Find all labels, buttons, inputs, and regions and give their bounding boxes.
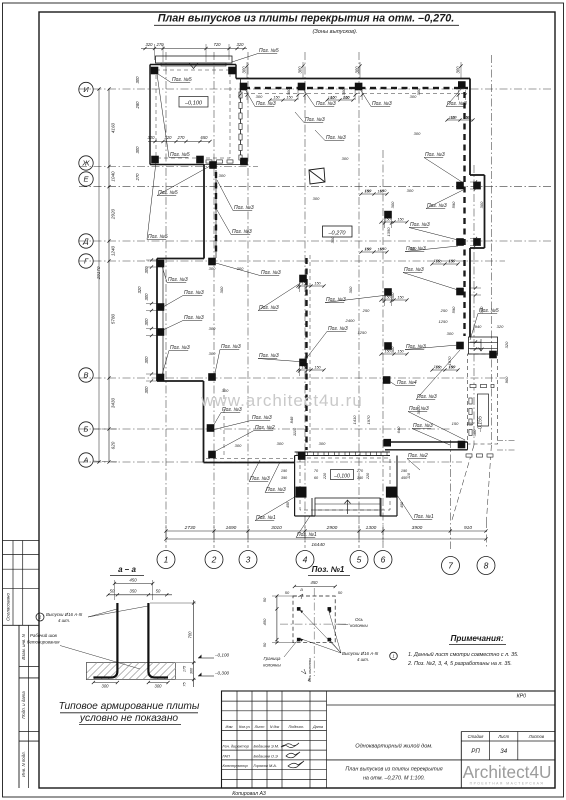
porch bottom wall vypuski: [295, 451, 390, 453]
svg-text:Лист: Лист: [254, 725, 265, 729]
svg-text:300: 300: [155, 684, 163, 689]
svg-text:300: 300: [479, 306, 484, 313]
bay dashed outline: [468, 354, 498, 444]
svg-text:Согласовано: Согласовано: [6, 593, 11, 621]
svg-text:2400: 2400: [345, 318, 356, 323]
svg-text:50: 50: [110, 589, 115, 594]
svg-text:2: 2: [211, 555, 217, 565]
svg-text:150: 150: [301, 366, 308, 370]
svg-text:34: 34: [500, 748, 507, 755]
svg-text:Лист: Лист: [497, 734, 509, 739]
svg-text:320: 320: [504, 341, 509, 348]
svg-text:50: 50: [338, 590, 343, 595]
svg-text:Поз. №3: Поз. №3: [326, 135, 346, 141]
svg-text:50: 50: [262, 597, 267, 602]
top dimension row: [141, 48, 247, 50]
svg-text:Поз. №5: Поз. №5: [259, 48, 279, 54]
svg-text:Поз. №3: Поз. №3: [232, 229, 252, 235]
vertical axis grid lines: [165, 52, 167, 548]
svg-text:300: 300: [256, 94, 263, 99]
svg-text:150: 150: [364, 190, 371, 194]
svg-text:План выпусков из плиты перекры: План выпусков из плиты перекрытия на отм…: [158, 13, 454, 25]
svg-text:910: 910: [464, 525, 472, 531]
svg-text:1040: 1040: [111, 171, 116, 182]
svg-text:5780: 5780: [111, 313, 116, 324]
svg-text:Поз. №3: Поз. №3: [261, 270, 281, 276]
svg-text:390: 390: [281, 476, 288, 480]
svg-text:8: 8: [484, 561, 489, 571]
svg-text:Поз. №1: Поз. №1: [414, 514, 434, 520]
svg-text:7: 7: [448, 561, 453, 571]
svg-text:50: 50: [262, 642, 267, 647]
porch dashed zone: [300, 458, 390, 510]
svg-text:1410: 1410: [352, 415, 357, 425]
level -0,155 box: [478, 394, 489, 426]
svg-text:300: 300: [390, 201, 395, 208]
svg-text:2920: 2920: [111, 208, 116, 220]
svg-text:Поз. №3: Поз. №3: [410, 222, 430, 228]
svg-text:1250: 1250: [439, 319, 449, 324]
svg-text:Взам. инв. N: Взам. инв. N: [21, 633, 26, 659]
svg-text:150: 150: [450, 116, 457, 120]
svg-text:РП: РП: [471, 748, 480, 755]
svg-text:на отм. –0,270. М 1:100.: на отм. –0,270. М 1:100.: [363, 776, 425, 782]
svg-text:1. Данный лист смотри совместн: 1. Данный лист смотри совместно с л. 35.: [408, 651, 519, 658]
vypuski dash axis2 wall: [215, 170, 217, 258]
svg-text:Типовое армирование плиты: Типовое армирование плиты: [59, 701, 200, 712]
svg-text:320: 320: [148, 135, 156, 140]
svg-text:3020: 3020: [416, 405, 421, 415]
column tick triples: [239, 90, 241, 100]
svg-text:150: 150: [384, 218, 391, 222]
title block grid: [222, 691, 556, 788]
porch steps: [315, 498, 380, 516]
svg-text:900: 900: [504, 376, 509, 383]
svg-text:колонны: колонны: [350, 623, 368, 628]
svg-text:3430: 3430: [111, 397, 116, 408]
pos1 center cross: [280, 623, 351, 625]
left dimension chain: [108, 89, 110, 462]
a-a rebar left: [93, 603, 117, 678]
svg-text:Подп. и дата: Подп. и дата: [21, 691, 26, 719]
level -0,270 box: [323, 226, 353, 237]
svg-text:–0,100: –0,100: [214, 653, 229, 658]
bottom dimension chain: [166, 530, 486, 532]
svg-text:150: 150: [448, 260, 455, 264]
svg-text:300: 300: [144, 318, 149, 326]
svg-text:300: 300: [319, 441, 326, 446]
svg-text:590: 590: [451, 306, 456, 313]
svg-text:3010: 3010: [271, 525, 282, 531]
a-a slab hatch: [86, 663, 175, 680]
svg-text:а: а: [300, 587, 303, 592]
svg-text:1970: 1970: [366, 415, 371, 425]
signatures: [281, 743, 299, 748]
bottom right wall band: [385, 441, 468, 443]
svg-text:1300: 1300: [366, 525, 377, 531]
svg-text:300: 300: [410, 246, 417, 251]
svg-text:Architect4U: Architect4U: [463, 762, 552, 782]
bottom wall left: [204, 462, 295, 464]
svg-text:ПРОЕКТНАЯ МАСТЕРСКАЯ: ПРОЕКТНАЯ МАСТЕРСКАЯ: [470, 782, 545, 786]
svg-text:Поз. №3: Поз. №3: [266, 487, 286, 493]
axis number circles: [157, 551, 175, 569]
svg-text:Поз. №5: Поз. №5: [148, 234, 168, 240]
svg-text:Изм: Изм: [225, 725, 232, 729]
right wall upper: [469, 79, 471, 176]
svg-text:3900: 3900: [412, 525, 423, 531]
svg-text:Листов: Листов: [528, 734, 545, 739]
svg-text:320: 320: [137, 286, 142, 294]
svg-text:(Зоны выпусков).: (Зоны выпусков).: [313, 29, 358, 35]
svg-text:4160: 4160: [111, 122, 116, 133]
svg-text:150: 150: [314, 366, 321, 370]
svg-text:300: 300: [135, 146, 140, 154]
svg-text:2730: 2730: [184, 525, 196, 531]
svg-text:колонны: колонны: [263, 663, 281, 668]
svg-text:300: 300: [209, 266, 216, 271]
left wall mid: [156, 259, 158, 382]
svg-text:Поз. №3: Поз. №3: [234, 205, 254, 211]
svg-text:Граница: Граница: [264, 656, 281, 661]
svg-text:1690: 1690: [226, 525, 237, 531]
svg-text:Поз. №4: Поз. №4: [397, 380, 417, 386]
svg-text:1250: 1250: [358, 330, 368, 335]
svg-text:320: 320: [237, 42, 245, 47]
svg-text:300: 300: [414, 131, 421, 136]
svg-text:Выпуски Ø16 А-III: Выпуски Ø16 А-III: [46, 612, 83, 617]
svg-text:700: 700: [188, 631, 193, 639]
svg-text:300: 300: [407, 188, 414, 193]
axis4 interior wall dashes: [305, 258, 307, 264]
svg-text:В: В: [83, 371, 88, 380]
svg-text:50: 50: [285, 590, 290, 595]
svg-text:Поз. №1: Поз. №1: [297, 532, 317, 538]
svg-text:300: 300: [219, 286, 224, 293]
svg-text:300: 300: [135, 76, 140, 84]
svg-text:1970: 1970: [447, 356, 452, 366]
svg-text:Поз. №3: Поз. №3: [328, 326, 348, 332]
axis Б bend: [93, 428, 118, 430]
svg-text:640: 640: [396, 426, 401, 433]
svg-text:320: 320: [146, 42, 154, 47]
svg-text:720: 720: [214, 42, 222, 47]
svg-text:300: 300: [237, 266, 244, 271]
svg-text:220: 220: [323, 472, 327, 480]
svg-text:Поз. №3: Поз. №3: [252, 415, 272, 421]
svg-text:150: 150: [397, 350, 404, 354]
svg-text:2. Поз. №2, 3, 4, 5 разработан: 2. Поз. №2, 3, 4, 5 разработаны на л. 35…: [407, 661, 512, 667]
svg-text:а – а: а – а: [118, 565, 136, 574]
svg-text:250: 250: [362, 308, 370, 313]
a-a bottom dims: [93, 682, 117, 684]
svg-text:Поз. №3: Поз. №3: [221, 344, 241, 350]
svg-text:300: 300: [341, 88, 346, 95]
a-a level marks: [198, 657, 214, 659]
svg-text:300: 300: [277, 441, 284, 446]
svg-text:150: 150: [377, 248, 384, 252]
interior 150 dim groups: [361, 193, 387, 195]
porch level box: [331, 470, 354, 480]
tilted pit square: [309, 168, 325, 184]
svg-text:300: 300: [416, 88, 421, 95]
svg-text:300: 300: [144, 293, 149, 301]
svg-text:220: 220: [366, 472, 370, 480]
svg-text:300: 300: [286, 88, 291, 95]
svg-text:Поз. №1: Поз. №1: [312, 565, 345, 574]
svg-text:300: 300: [219, 173, 226, 178]
svg-text:300: 300: [390, 346, 395, 353]
a-a right dims: [193, 600, 195, 687]
svg-text:Выпуски Ø16 А-III: Выпуски Ø16 А-III: [342, 651, 379, 656]
svg-text:300: 300: [144, 386, 149, 394]
svg-text:150: 150: [273, 96, 280, 100]
svg-text:6: 6: [381, 555, 386, 565]
garage columns: [151, 67, 159, 75]
pos1 top dims: [294, 586, 335, 588]
svg-text:150: 150: [467, 421, 474, 426]
svg-text:150: 150: [448, 366, 455, 370]
bay stairs: [469, 337, 498, 354]
svg-text:19170: 19170: [96, 266, 101, 279]
left strip approval table: [3, 540, 40, 542]
axis А bend: [93, 461, 118, 462]
svg-text:Поз. №3: Поз. №3: [316, 101, 336, 107]
svg-text:Бедашов Э.М.: Бедашов Э.М.: [254, 744, 280, 749]
svg-text:140: 140: [357, 476, 364, 480]
right wall vypuski dashes: [463, 92, 465, 98]
svg-text:условно не показано: условно не показано: [79, 713, 179, 724]
svg-text:300: 300: [209, 326, 216, 331]
svg-text:270: 270: [135, 173, 140, 182]
porch right pillar: [396, 456, 398, 517]
svg-text:280: 280: [135, 101, 140, 110]
svg-text:270: 270: [177, 135, 186, 140]
svg-text:Примечания:: Примечания:: [450, 634, 503, 643]
svg-text:50: 50: [156, 589, 161, 594]
right step out: [470, 174, 485, 176]
svg-text:Ген. директор: Ген. директор: [223, 744, 250, 749]
svg-text:150: 150: [301, 282, 308, 286]
svg-text:1240: 1240: [111, 245, 116, 256]
svg-text:План выпусков из плиты перекры: План выпусков из плиты перекрытия: [345, 767, 442, 773]
svg-text:590: 590: [451, 201, 456, 208]
svg-text:620: 620: [111, 441, 116, 449]
pos1 left dims: [276, 596, 278, 643]
left step: [157, 380, 204, 382]
svg-text:Поз. №3: Поз. №3: [425, 152, 445, 158]
svg-text:300: 300: [235, 443, 242, 448]
svg-text:Поз. №3: Поз. №3: [372, 101, 392, 107]
svg-text:1110: 1110: [292, 427, 297, 436]
porch big columns: [296, 487, 307, 498]
svg-text:190: 190: [401, 469, 408, 473]
svg-text:Поз. №2: Поз. №2: [408, 453, 428, 459]
svg-text:–0,270: –0,270: [327, 231, 346, 237]
vypuski dash under top wall: [244, 87, 250, 89]
svg-text:650: 650: [201, 135, 209, 140]
garage outline walls: [150, 64, 236, 66]
svg-text:Поз. №3: Поз. №3: [256, 101, 276, 107]
horizontal axis grid lines: [79, 88, 552, 90]
top wall column dims: [246, 62, 248, 78]
svg-text:300: 300: [209, 351, 216, 356]
thin dashed helpers: [309, 255, 311, 452]
svg-text:–0,300: –0,300: [214, 671, 229, 676]
svg-text:150: 150: [364, 248, 371, 252]
svg-text:150: 150: [435, 366, 442, 370]
svg-text:3: 3: [246, 555, 251, 565]
svg-text:300: 300: [102, 684, 110, 689]
svg-text:940: 940: [475, 324, 482, 329]
pos1 corner dots: [297, 607, 301, 611]
svg-text:ГАП: ГАП: [223, 753, 230, 758]
svg-text:300: 300: [479, 201, 484, 208]
svg-text:Поз. №3: Поз. №3: [184, 290, 204, 296]
svg-text:150: 150: [343, 96, 350, 100]
svg-text:150: 150: [377, 190, 384, 194]
svg-text:Поз. №3: Поз. №3: [250, 476, 270, 482]
svg-text:Бедашов О.Э: Бедашов О.Э: [254, 753, 279, 758]
svg-text:450: 450: [311, 580, 319, 585]
svg-text:2900: 2900: [326, 525, 338, 531]
svg-text:Дата: Дата: [312, 725, 323, 729]
svg-text:Поз. №3: Поз. №3: [170, 345, 190, 351]
svg-text:Поз. №2: Поз. №2: [255, 425, 275, 431]
svg-text:1: 1: [392, 654, 394, 659]
svg-text:–0,155: –0,155: [478, 416, 484, 433]
svg-text:150: 150: [314, 282, 321, 286]
svg-text:–0,100: –0,100: [333, 473, 350, 479]
porch left pillar: [294, 456, 296, 517]
svg-text:300: 300: [313, 196, 320, 201]
bay vypuski dashes: [470, 384, 476, 387]
svg-text:а: а: [308, 677, 311, 682]
svg-text:150: 150: [397, 218, 404, 222]
svg-text:Поз. №5: Поз. №5: [170, 152, 190, 158]
svg-text:Рабочий шов: Рабочий шов: [30, 633, 58, 638]
svg-text:4: 4: [303, 555, 308, 565]
garage bottom extension: [204, 164, 247, 166]
svg-text:Кол.уч: Кол.уч: [239, 725, 250, 729]
svg-text:Конструктор: Конструктор: [223, 763, 249, 768]
svg-text:1: 1: [164, 555, 169, 565]
left strip inventory cells: [18, 625, 20, 788]
svg-text:Поз. №3: Поз. №3: [413, 423, 433, 429]
svg-text:150: 150: [384, 350, 391, 354]
svg-text:150: 150: [397, 296, 404, 300]
svg-text:Поз. №5: Поз. №5: [172, 77, 192, 83]
svg-text:450: 450: [262, 618, 267, 625]
svg-text:190: 190: [281, 469, 288, 473]
svg-text:Поз. №3: Поз. №3: [259, 353, 279, 359]
below bay dash rects: [466, 454, 472, 457]
garage porch slab: [156, 56, 233, 63]
svg-text:Д: Д: [82, 237, 89, 246]
pos1 dashed square: [293, 596, 335, 643]
svg-text:110: 110: [407, 472, 411, 479]
svg-text:–0,100: –0,100: [184, 100, 203, 106]
svg-text:Ж: Ж: [82, 159, 91, 168]
a-a leader vypuski: [36, 613, 44, 621]
svg-text:300: 300: [342, 156, 349, 161]
svg-text:Поз. №3: Поз. №3: [168, 277, 188, 283]
svg-text:КР0: КР0: [517, 694, 527, 700]
svg-text:И: И: [83, 85, 89, 94]
svg-text:16440: 16440: [311, 542, 325, 548]
svg-text:Поз. №3: Поз. №3: [427, 203, 447, 209]
svg-text:848: 848: [289, 416, 294, 423]
svg-text:Стадия: Стадия: [468, 734, 484, 739]
columns black squares: [240, 83, 248, 91]
garage inner dashed: [156, 70, 230, 158]
garage right wall w vypuski: [240, 79, 242, 165]
axis letter circles: [79, 82, 93, 96]
svg-text:Подпись: Подпись: [288, 725, 303, 729]
svg-text:Копировал А3: Копировал А3: [232, 791, 266, 797]
svg-text:Поз. №3: Поз. №3: [184, 315, 204, 321]
svg-text:Поз. №3: Поз. №3: [305, 117, 325, 123]
svg-text:N док: N док: [270, 725, 280, 729]
svg-text:300: 300: [348, 286, 353, 293]
svg-text:300: 300: [447, 331, 454, 336]
right wall lower: [469, 248, 471, 337]
svg-text:320: 320: [497, 324, 504, 329]
svg-text:175: 175: [183, 665, 187, 672]
left wall notch upper: [203, 165, 205, 259]
svg-text:150: 150: [463, 116, 470, 120]
a-a top dims: [115, 583, 153, 585]
svg-text:150: 150: [435, 260, 442, 264]
svg-text:350: 350: [130, 589, 138, 594]
garage level box: [179, 97, 208, 108]
band edge axes: [497, 440, 516, 442]
svg-text:300: 300: [390, 292, 395, 299]
svg-text:Поз. №3: Поз. №3: [404, 267, 424, 273]
svg-text:270: 270: [356, 469, 364, 473]
svg-text:250: 250: [440, 308, 448, 313]
main top wall: [236, 78, 470, 80]
svg-text:А: А: [82, 456, 88, 465]
svg-text:Горохов М.А.: Горохов М.А.: [254, 763, 277, 768]
svg-text:бетонирования: бетонирования: [27, 640, 60, 645]
svg-text:www.architect4u.ru: www.architect4u.ru: [200, 391, 363, 410]
svg-text:Инв. N подл.: Инв. N подл.: [21, 751, 26, 777]
svg-text:150: 150: [330, 96, 337, 100]
svg-text:4 шт.: 4 шт.: [58, 618, 70, 623]
a-a rebar right: [148, 603, 168, 678]
svg-text:Б: Б: [84, 425, 89, 434]
svg-text:Ось: Ось: [355, 617, 364, 622]
svg-text:4 шт.: 4 шт.: [357, 657, 369, 662]
svg-text:150: 150: [384, 296, 391, 300]
svg-text:Одноквартирный жилой дом.: Одноквартирный жилой дом.: [355, 743, 433, 750]
svg-text:300: 300: [190, 667, 194, 674]
svg-text:150: 150: [286, 96, 293, 100]
svg-text:450: 450: [129, 578, 137, 583]
svg-text:1350: 1350: [386, 227, 391, 237]
svg-text:5: 5: [357, 555, 362, 565]
svg-text:300: 300: [472, 429, 477, 436]
svg-text:150: 150: [452, 421, 459, 426]
svg-text:300: 300: [144, 356, 149, 364]
